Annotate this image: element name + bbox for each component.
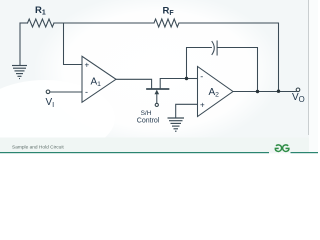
svg-text:+: +: [85, 60, 90, 69]
svg-text:Control: Control: [137, 118, 160, 125]
svg-text:Sample and Hold Circuit: Sample and Hold Circuit: [12, 145, 64, 151]
svg-text:+: +: [200, 100, 205, 109]
svg-text:S/H: S/H: [141, 110, 152, 117]
svg-text:-: -: [200, 72, 203, 82]
svg-text:-: -: [85, 87, 88, 97]
